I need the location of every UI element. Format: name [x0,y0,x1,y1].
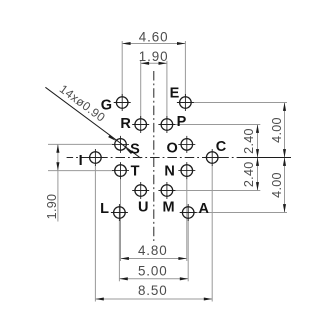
hole P : circle with center marks [158,116,175,133]
horizontal centerline solid right extension [238,157,291,159]
svg-text:I: I [79,153,83,169]
dimension 8.50 line [95,298,212,300]
extension line G column [121,41,123,96]
svg-text:E: E [170,86,180,102]
leader arrowhead at S (upper) [108,135,117,142]
dimension 1.90 top line [141,62,167,64]
svg-text:1.90: 1.90 [45,194,59,220]
extension line T column (down) [120,179,122,261]
extension line E column [184,41,186,96]
dimension 5.00 line [119,278,188,280]
extension line R column [140,61,142,118]
dimension 4.00 lines (right outer) [284,103,286,213]
svg-text:2.40: 2.40 [242,161,256,187]
svg-text:4.00: 4.00 [270,172,284,198]
hole R : circle with center marks [132,116,149,133]
svg-text:O: O [167,141,178,157]
extension line C column (down) [211,165,213,301]
svg-text:T: T [131,164,140,180]
extension line P column [166,61,168,118]
hole O : circle with center marks [178,136,195,153]
svg-text:4.00: 4.00 [270,117,284,143]
svg-text:1.90: 1.90 [139,49,169,64]
svg-text:L: L [100,201,109,217]
extension line P row (right) [175,124,261,126]
svg-text:R: R [120,116,131,132]
hole U : circle with center marks [132,182,149,199]
svg-text:2.40: 2.40 [242,128,256,154]
extension line I column (down) [94,165,96,301]
svg-text:N: N [164,164,174,180]
extension line A column (down) [187,220,189,281]
svg-text:4.60: 4.60 [139,29,169,44]
svg-text:S: S [130,141,140,157]
hole N : circle with center marks [178,162,195,179]
hole E : circle with center marks [177,94,194,111]
dimension 1.90 left line [57,144,59,221]
hole G : circle with center marks [114,94,131,111]
svg-text:M: M [163,199,175,215]
hole A : circle with center marks [180,204,197,221]
extension line S row (left) [48,143,114,145]
svg-text:C: C [216,139,227,155]
extension line M row (right) [175,190,261,192]
dimension 4.60 line [122,43,185,45]
hole M : circle with center marks [158,182,175,199]
svg-text:P: P [177,114,187,130]
horizontal centerline (dash-dot) [67,157,238,159]
extension line T row (left) [48,170,114,172]
leader line 14xO0.90 to hole S [45,87,140,158]
svg-text:G: G [101,97,112,113]
leader arrowhead at S (lower) [124,147,133,154]
extension line N column (down) [186,179,188,261]
svg-text:U: U [138,199,148,215]
extension line E row (right) [194,102,287,104]
dimension 4.80 line [121,258,187,260]
svg-text:8.50: 8.50 [138,283,168,298]
dimension 2.40 lines (right inner) [257,125,259,191]
extension line A row (right) [196,212,288,214]
svg-text:4.80: 4.80 [138,243,168,258]
hole T : circle with center marks [112,162,129,179]
svg-text:A: A [198,201,209,217]
hole S : circle with center marks [112,136,129,153]
extension line L column (down) [118,220,120,281]
hole L : circle with center marks [111,204,128,221]
vertical centerline (dash-dot) [153,71,155,244]
hole I : circle with center marks [87,149,104,166]
svg-text:5.00: 5.00 [138,263,168,278]
hole C : circle with center marks [204,149,221,166]
